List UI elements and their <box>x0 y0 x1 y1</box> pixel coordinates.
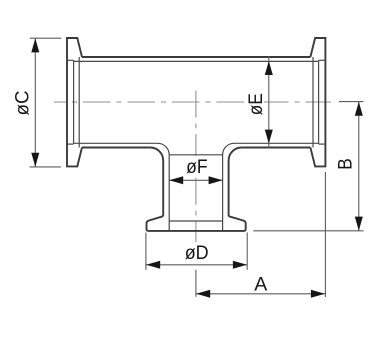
left flange outline <box>67 38 82 166</box>
right flange groove line <box>318 60 320 144</box>
dim B ext line bottom <box>253 230 363 232</box>
dim F arrow left <box>169 176 183 184</box>
dim B ext line top <box>339 101 364 103</box>
label øD <box>184 244 210 261</box>
dim A arrow left <box>196 290 210 298</box>
dim A arrow right <box>311 290 325 298</box>
tube outer bottom right + outer fillet + branch outer wall right <box>229 148 311 217</box>
dim F line <box>169 179 222 181</box>
centerline vertical (branch axis) <box>195 91 197 242</box>
dim E arrow down <box>265 130 273 144</box>
tube outer top line <box>82 56 310 58</box>
left flange step bottom <box>67 143 74 145</box>
dim D ext line right <box>246 233 248 270</box>
svg-text:øC: øC <box>11 91 33 116</box>
dim C line <box>34 38 36 167</box>
bore chord line <box>169 154 222 156</box>
dim A line <box>196 293 326 295</box>
centerline horizontal (run axis) <box>54 101 331 103</box>
dim D arrow left <box>146 261 160 269</box>
tube inner top line <box>74 60 319 62</box>
dim D ext line left <box>145 233 147 270</box>
dim F arrow right <box>209 176 223 184</box>
dim B line <box>358 102 360 231</box>
dim A ext line right (flange face) <box>324 172 326 297</box>
svg-text:A: A <box>254 274 267 296</box>
tube outer bottom left + outer fillet + branch outer wall left <box>82 148 163 217</box>
left flange groove line <box>73 60 75 144</box>
dim A ext line left (branch axis) <box>195 270 197 297</box>
left flange step top <box>67 59 74 61</box>
svg-text:øF: øF <box>186 156 208 178</box>
tube inner bottom line left + inner fillet <box>74 143 170 231</box>
dim E line <box>268 56 270 148</box>
left flange back line <box>78 57 80 148</box>
dim D line <box>146 264 247 266</box>
dim C ext line top <box>30 37 62 39</box>
dim C arrow up <box>31 38 39 52</box>
dim E arrow up <box>265 61 273 75</box>
label øF <box>183 156 210 175</box>
right flange outline <box>310 38 325 166</box>
bottom flange outline <box>147 216 246 231</box>
dim D arrow right <box>233 261 247 269</box>
dim B arrow down <box>355 217 363 231</box>
svg-text:B: B <box>335 158 357 170</box>
dim C ext line bottom <box>30 166 62 168</box>
right flange step top <box>319 59 326 61</box>
label øE <box>244 92 264 117</box>
right flange back line <box>312 57 314 148</box>
dim C arrow down <box>31 153 39 167</box>
bottom flange band top line <box>169 220 222 222</box>
tube inner bottom line right + inner fillet <box>223 143 319 231</box>
right flange step bottom <box>319 143 326 145</box>
svg-text:øE: øE <box>245 93 267 115</box>
svg-text:øD: øD <box>185 242 209 264</box>
dim B arrow up <box>355 102 363 116</box>
